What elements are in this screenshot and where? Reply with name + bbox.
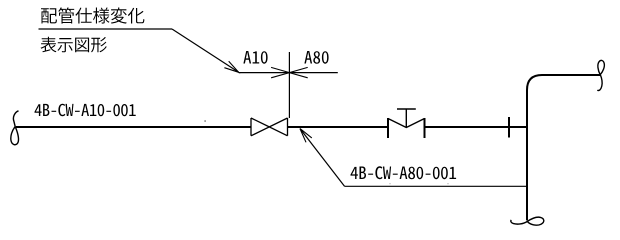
line label 4B-CW-A80-001 bbox=[351, 166, 457, 179]
spec region line A80 side bbox=[289, 72, 337, 74]
pipe break symbol left bbox=[11, 111, 19, 145]
check valve V2 vee body bbox=[388, 119, 425, 128]
check valve V2 right end bar bbox=[424, 118, 426, 138]
note text 表示図形 bbox=[41, 37, 107, 53]
faint speck on underline bbox=[389, 183, 391, 184]
leader diagonal for note bbox=[172, 29, 239, 72]
gate valve V1 left triangle bbox=[251, 118, 269, 136]
pipe 4B-CW-A10-001 left segment bbox=[16, 126, 251, 128]
arrowhead pointing right at spec boundary bbox=[271, 67, 289, 77]
spec break boundary line bbox=[288, 52, 290, 118]
label A10 bbox=[243, 51, 267, 64]
check valve V2 top bar bbox=[397, 108, 416, 110]
note text 配管仕様変化 bbox=[41, 7, 144, 23]
pipe riser with corner to top right bbox=[527, 75, 600, 220]
leader arrowhead pointing at pipe after valve bbox=[300, 129, 312, 143]
leader underline for note bbox=[39, 28, 173, 30]
stray speck bbox=[205, 120, 206, 122]
leader diagonal for 4B-CW-A80-001 bbox=[300, 129, 345, 187]
gate valve V1 right triangle bbox=[269, 118, 287, 136]
arrowhead pointing left at spec boundary bbox=[289, 67, 307, 77]
pipe break symbol top right bbox=[597, 60, 604, 90]
pipe break symbol bottom bbox=[511, 217, 544, 225]
pipe right segment bbox=[425, 126, 528, 128]
check valve V2 stem bbox=[405, 109, 407, 128]
spec region line A10 side bbox=[239, 72, 290, 74]
line label 4B-CW-A10-001 bbox=[35, 104, 136, 117]
label A80 bbox=[304, 51, 328, 64]
faint speck on underline 2 bbox=[447, 183, 449, 184]
leader underline for 4B-CW-A80-001 bbox=[345, 185, 529, 187]
check valve V2 left end bar bbox=[387, 118, 389, 138]
flange tick bbox=[508, 117, 510, 138]
pipe middle segment bbox=[288, 126, 389, 128]
leader arrowhead bbox=[224, 61, 238, 72]
